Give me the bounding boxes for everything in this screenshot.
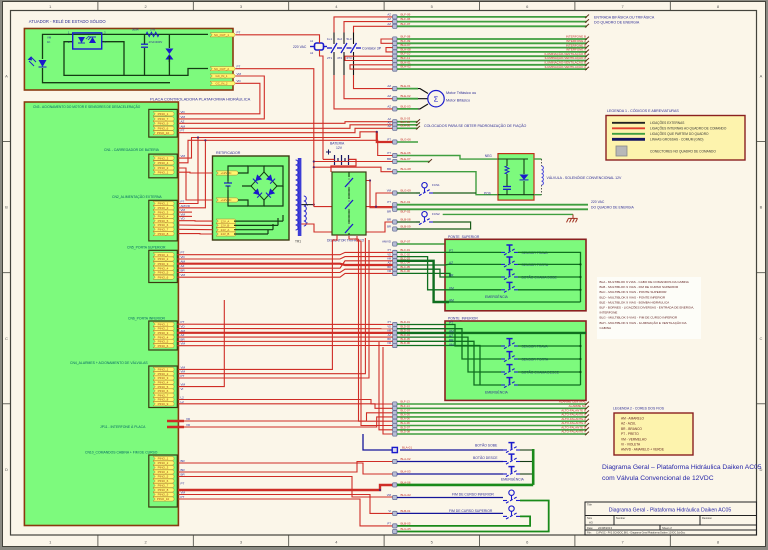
svg-text:VI: VI (181, 387, 184, 391)
svg-text:PT: PT (388, 320, 392, 324)
svg-text:PINO_5: PINO_5 (158, 271, 169, 275)
wire disjuntor bottom poles (349, 236, 359, 239)
svg-text:BR: BR (387, 218, 391, 222)
svg-text:AZ: AZ (387, 84, 391, 88)
svg-text:BLF-09: BLF-09 (401, 12, 411, 16)
svg-text:AZ: AZ (449, 261, 453, 265)
wire CN10 VM PT (178, 495, 393, 514)
wire disjuntor to BLF-02 (366, 181, 393, 208)
svg-text:BLD - MULTIBLOK 9 VIAS - PONTE: BLD - MULTIBLOK 9 VIAS - PONTE INFERIOR (600, 295, 666, 299)
svg-text:LEGENDA 1 - CÓDIGOS E ABREVIA: LEGENDA 1 - CÓDIGOS E ABREVIATURAS (607, 108, 679, 113)
svg-text:BLC - MULTIBLOK 9 VIAS - PONTE: BLC - MULTIBLOK 9 VIAS - PONTE SUPERIOR (600, 290, 668, 294)
svg-text:BR: BR (387, 167, 391, 171)
svg-text:CN5_PORTA SUPERIOR: CN5_PORTA SUPERIOR (127, 246, 166, 250)
svg-text:CN3 - ACIONAMENTO DO MOTOR E: CN3 - ACIONAMENTO DO MOTOR E SENSORES DE… (33, 104, 141, 109)
svg-text:5 W: 5 W (150, 28, 155, 32)
svg-text:BLF-06: BLF-06 (401, 17, 411, 21)
wire jumper loops group2 (381, 39, 393, 43)
svg-text:PLACA CONTROLADORA PLATAFORMA: PLACA CONTROLADORA PLATAFORMA HIDRÁULICA (150, 97, 251, 102)
svg-text:B: B (5, 205, 8, 210)
svg-text:C:\PVSC - PV3.SCHDOC.BK1 - Dia: C:\PVSC - PV3.SCHDOC.BK1 - Diagrama Gera… (596, 532, 686, 535)
svg-text:4T2: 4T2 (337, 56, 343, 60)
svg-text:VM: VM (181, 342, 186, 346)
resistor R2 560R (146, 32, 159, 36)
wire valve internal (498, 159, 534, 195)
pin SC_OUT_2 (210, 67, 235, 71)
svg-text:COLOCADOS PARA SE OBTER PADRON: COLOCADOS PARA SE OBTER PADRONIZAÇÃO DE … (424, 123, 527, 128)
wire atuador internal (43, 34, 209, 82)
wire SC_OUT_2 down to transformer (236, 69, 314, 207)
terminal BLF-01 (393, 203, 397, 207)
svg-text:PINO_3: PINO_3 (158, 466, 169, 470)
svg-text:AZ: AZ (387, 12, 391, 16)
switch FCS1 (416, 183, 433, 196)
terminals BLD ponte inferior (393, 322, 397, 326)
terminals BLE motor (393, 87, 397, 91)
terminal BLE-07 (393, 159, 397, 163)
svg-text:AZ: AZ (387, 17, 391, 21)
svg-text:EMERGÊNCIA: EMERGÊNCIA (485, 294, 509, 299)
svg-text:BLE-01: BLE-01 (401, 84, 411, 88)
svg-text:AZ: AZ (181, 119, 185, 123)
wire verticals to bottom terminals (359, 239, 393, 421)
wire BLE-07 feed (314, 161, 393, 163)
terminal BLA-02 (393, 459, 397, 463)
wire BLA-01 feed (363, 434, 393, 450)
svg-text:PINO_7: PINO_7 (158, 484, 169, 488)
svg-text:BLE-03: BLE-03 (401, 104, 411, 108)
block DISJUNTOR TRIFASICO (332, 172, 366, 235)
svg-text:AZ: AZ (449, 334, 453, 338)
svg-text:BLH-06: BLH-06 (401, 123, 411, 127)
wire SC_OUT_1 to coil (236, 35, 320, 43)
diode D3 valve (520, 175, 529, 180)
svg-text:EMERGÊNCIA: EMERGÊNCIA (485, 390, 509, 395)
svg-text:BOTÃO DESCE: BOTÃO DESCE (473, 455, 498, 460)
pin GC_IN_2 (210, 81, 235, 85)
svg-text:VM: VM (181, 154, 186, 158)
connector CN3 (149, 109, 178, 137)
svg-text:CN6_PORTA INFERIOR: CN6_PORTA INFERIOR (128, 317, 166, 321)
wire CN6 bundle (177, 323, 393, 325)
wire GC_IN_1 to CN3 (178, 76, 264, 119)
terminals BLF-09 06 07 entrada energia (393, 15, 397, 19)
svg-text:AM: AM (181, 124, 186, 128)
svg-text:PINO_3: PINO_3 (158, 262, 169, 266)
wire CN2 pins 3-4 stubs (178, 211, 192, 213)
svg-text:PT: PT (387, 138, 391, 142)
svg-text:TR1: TR1 (295, 240, 301, 244)
svg-text:BLF - BORNES - LIGAÇÕES DIVERS: BLF - BORNES - LIGAÇÕES DIVERSAS - ENTRA… (600, 305, 695, 310)
svg-text:BLF-07: BLF-07 (401, 240, 411, 244)
svg-text:A2: A2 (310, 51, 314, 55)
optocoupler U2 (73, 33, 102, 49)
svg-text:SC_OUT_1: SC_OUT_1 (214, 33, 229, 37)
wire ponte superior inputs (397, 251, 501, 253)
svg-text:A: A (760, 74, 763, 79)
switch emergencia sup (501, 282, 518, 292)
svg-text:VM: VM (449, 286, 454, 290)
svg-text:2T1: 2T1 (327, 56, 333, 60)
svg-text:ILUMINAÇÃO-VENTILAÇÃO A: ILUMINAÇÃO-VENTILAÇÃO A (545, 55, 586, 60)
terminals BLF BLH interfone iluminacao (393, 37, 397, 41)
svg-text:BLD-08: BLD-08 (401, 430, 411, 434)
svg-text:560R: 560R (132, 28, 139, 32)
svg-text:A: A (5, 74, 8, 79)
terminal BLG-05 (393, 529, 397, 533)
svg-text:BR: BR (449, 274, 454, 278)
svg-text:FIM DE CURSO SUPERIOR: FIM DE CURSO SUPERIOR (449, 509, 493, 513)
svg-text:PONTE_SUPERIOR: PONTE_SUPERIOR (448, 235, 480, 239)
svg-text:RETIFICADOR: RETIFICADOR (216, 151, 241, 155)
svg-text:PINO_10: PINO_10 (157, 497, 170, 501)
svg-text:Σ: Σ (434, 95, 439, 104)
svg-text:PT: PT (449, 321, 453, 325)
svg-text:PINO_4: PINO_4 (158, 161, 169, 165)
svg-text:PT: PT (387, 200, 391, 204)
wire CN4 pin5 stub (178, 300, 224, 387)
wire coil A2 down to battery (320, 50, 324, 159)
svg-text:BR: BR (387, 225, 391, 229)
terminal BLA-03 (393, 472, 397, 476)
svg-text:PINO_9: PINO_9 (158, 122, 169, 126)
pin 24V_A (216, 228, 236, 232)
wire ground run (443, 213, 573, 215)
svg-text:Title: Title (587, 503, 592, 507)
svg-text:PONTE_INFERIOR: PONTE_INFERIOR (448, 317, 478, 321)
svg-text:PINO_6: PINO_6 (158, 275, 169, 279)
svg-text:CN1 - CARREGADOR DE BATERIA: CN1 - CARREGADOR DE BATERIA (104, 148, 160, 152)
svg-text:A3: A3 (589, 521, 593, 525)
pin 12V_B (216, 223, 236, 227)
svg-text:24V_B: 24V_B (221, 232, 230, 236)
wire CN5 bundle (177, 252, 393, 254)
svg-text:CONECTORES NO QUADRO DE COMAND: CONECTORES NO QUADRO DE COMANDO (650, 150, 716, 154)
svg-text:22/08/2013: 22/08/2013 (598, 526, 612, 530)
pin +12VDC b (216, 198, 238, 202)
svg-text:AZ: AZ (388, 120, 392, 124)
svg-text:VM: VM (181, 115, 186, 119)
triac Q1 (165, 49, 173, 55)
wire 220VAC to quadro (397, 204, 588, 206)
svg-text:EMERGÊNCIA: EMERGÊNCIA (501, 476, 525, 481)
svg-text:LIGAÇÕES INTERNAS AO QUADRO DE: LIGAÇÕES INTERNAS AO QUADRO DE COMANDO (650, 126, 727, 131)
svg-text:File:: File: (587, 532, 592, 535)
wire contactor bottoms to motor terminals (354, 75, 393, 89)
svg-text:BR: BR (387, 210, 391, 214)
svg-text:VM: VM (181, 273, 186, 277)
solenoid spring (534, 158, 542, 160)
terminal FCS1 switch (393, 191, 397, 195)
svg-text:C: C (5, 336, 8, 341)
switch sensor porta sup (501, 257, 518, 267)
svg-text:ALTO-FALANTE A: ALTO-FALANTE A (561, 430, 586, 434)
svg-text:DO QUADRO DE ENERGIA: DO QUADRO DE ENERGIA (594, 21, 640, 25)
svg-text:BR: BR (387, 157, 391, 161)
svg-text:ALARME NA: ALARME NA (569, 404, 586, 408)
wire CN10 PT thick (178, 485, 393, 490)
svg-text:PINO_4: PINO_4 (158, 470, 169, 474)
svg-text:AZ: AZ (387, 94, 391, 98)
svg-text:PT: PT (181, 482, 185, 486)
svg-text:L2: L2 (181, 400, 185, 404)
svg-text:GC_IN_2: GC_IN_2 (215, 82, 227, 86)
terminal BLB-08 FCS2 (393, 220, 397, 224)
svg-text:ENTRADA BIFÁSICA OU TRIFÁSICA: ENTRADA BIFÁSICA OU TRIFÁSICA (594, 16, 655, 20)
svg-text:PT: PT (237, 65, 241, 69)
svg-text:CN4_ALARMES + ACIONAMENTO DE: CN4_ALARMES + ACIONAMENTO DE VÁLVULAS (70, 361, 148, 365)
terminal BLG-08 (393, 170, 397, 174)
capacitor C3 valve (503, 186, 511, 188)
pin GC_IN_1 (210, 74, 235, 78)
terminal BLB-09 (393, 227, 397, 231)
resistor R3 valve (505, 166, 509, 174)
svg-text:BLA-02: BLA-02 (401, 457, 411, 461)
svg-text:+12VDC: +12VDC (220, 198, 231, 202)
svg-text:ILUMINAÇÃO-VENTILAÇÃO B: ILUMINAÇÃO-VENTILAÇÃO B (544, 60, 586, 65)
svg-text:PT: PT (388, 248, 392, 252)
svg-text:PINO_8: PINO_8 (158, 232, 169, 236)
wire CN10 runs (178, 463, 393, 474)
svg-text:BLG-08: BLG-08 (401, 167, 412, 171)
svg-text:LINHAS GROSSAS - COMUM (GND): LINHAS GROSSAS - COMUM (GND) (650, 138, 703, 142)
switch botao chama desce (501, 365, 518, 375)
pin 24V_B (216, 232, 236, 236)
switch sensor trava sup (501, 245, 518, 255)
svg-text:Diagrama Geral – Plataforma Hi: Diagrama Geral – Plataforma Hidráulica D… (602, 464, 762, 471)
svg-text:PINO_1: PINO_1 (158, 170, 169, 174)
svg-text:BLA - MULTIBLOK 9 VIAS - CABO: BLA - MULTIBLOK 9 VIAS - CABO DE COMANDO… (600, 280, 690, 284)
svg-text:BLF-01: BLF-01 (401, 200, 411, 204)
svg-text:BLB-05: BLB-05 (401, 521, 411, 525)
svg-text:PT: PT (387, 521, 391, 525)
motor M1 (428, 91, 444, 107)
wire GC_IN_2 to CN3 (178, 83, 260, 114)
svg-text:BLG-09: BLG-09 (401, 189, 412, 193)
terminal BLB-05 (393, 524, 397, 528)
svg-text:ATUADOR - RELÉ DE ESTADO: ATUADOR - RELÉ DE ESTADO SÓLIDO (29, 19, 107, 24)
wire CN4 pin9 (178, 404, 393, 409)
svg-text:BLF-07: BLF-07 (401, 22, 411, 26)
svg-text:BLB-09: BLB-09 (401, 225, 411, 229)
terminals alarme alto-falante (393, 402, 397, 406)
bloco list text (597, 277, 701, 339)
svg-text:FIM DE CURSO INFERIOR: FIM DE CURSO INFERIOR (452, 493, 494, 497)
svg-text:AZ: AZ (387, 22, 391, 26)
svg-text:PT: PT (387, 151, 391, 155)
svg-text:BLB-01: BLB-01 (401, 509, 411, 513)
svg-text:AM/VD - AMARELO + VERDE: AM/VD - AMARELO + VERDE (621, 448, 664, 452)
title block (585, 502, 757, 535)
svg-text:BLE-07: BLE-07 (401, 157, 411, 161)
svg-text:PT: PT (237, 31, 241, 35)
svg-text:PT: PT (181, 495, 185, 499)
svg-text:VÁLVULA - SOLENÓIDE CONVENCION: VÁLVULA - SOLENÓIDE CONVENCIONAL 12V (547, 175, 623, 180)
wire secondary to BLF-01 (314, 206, 393, 208)
svg-text:CABINA: CABINA (600, 326, 612, 330)
svg-text:12V: 12V (336, 146, 343, 150)
svg-text:PINO_7: PINO_7 (158, 117, 169, 121)
svg-text:BLG-05: BLG-05 (401, 527, 412, 531)
svg-text:BLG - MULTIBLOK 9 VIAS - FIM D: BLG - MULTIBLOK 9 VIAS - FIM DE CURSO IN… (600, 316, 678, 320)
svg-text:BLH - MULTIBLOK 9 VIAS - ILUMI: BLH - MULTIBLOK 9 VIAS - ILUMINAÇÃO E VE… (600, 320, 688, 325)
terminal BLE-06 (393, 153, 397, 157)
svg-text:BLE-06: BLE-06 (401, 151, 411, 155)
wire ponte inferior inputs (397, 325, 501, 347)
svg-text:D: D (5, 467, 8, 472)
svg-text:47uF/400V: 47uF/400V (149, 40, 163, 44)
svg-text:VM: VM (387, 189, 392, 193)
svg-text:PINO_6: PINO_6 (158, 479, 169, 483)
svg-text:PINO_1: PINO_1 (158, 112, 169, 116)
svg-text:BATERIA: BATERIA (330, 142, 345, 146)
svg-text:3L2: 3L2 (337, 37, 342, 41)
block U1 ATUADOR - solid state relay (24, 29, 233, 91)
pin SC_OUT_1 (210, 33, 235, 37)
coil K1 220VAC (315, 43, 324, 50)
svg-text:PINO_2: PINO_2 (158, 257, 169, 261)
breaker poles (348, 172, 350, 235)
svg-text:Sheet of: Sheet of (662, 526, 672, 530)
svg-text:BLG-06: BLG-06 (401, 138, 412, 142)
switch botao chama sobe (501, 270, 518, 280)
switch sensor trava inf (501, 339, 518, 349)
svg-text:1L1: 1L1 (327, 37, 332, 41)
svg-text:PINO_8: PINO_8 (158, 488, 169, 492)
svg-text:BLB - MULTIBLOK 9 VIAS - FIM D: BLB - MULTIBLOK 9 VIAS - FIM DE CURSO SU… (600, 285, 679, 289)
svg-text:BLH-02: BLH-02 (401, 65, 412, 69)
svg-text:AM/VD: AM/VD (382, 240, 391, 244)
pin +12VDC a (216, 171, 238, 175)
svg-text:Motor Bifásico: Motor Bifásico (446, 99, 470, 103)
svg-text:BLA-03: BLA-03 (401, 470, 411, 474)
wire BLE-07 stub (397, 161, 430, 163)
wire CN4 pin8 (178, 400, 393, 405)
switch sensor porta inf (501, 352, 518, 362)
svg-text:VM - VERMELHO: VM - VERMELHO (621, 437, 647, 441)
capacitor C1 47uF 400V (141, 43, 148, 45)
svg-text:AZ: AZ (388, 124, 392, 128)
svg-text:BR: BR (449, 339, 454, 343)
svg-text:VM: VM (387, 493, 392, 497)
svg-text:Size: Size (587, 516, 593, 520)
svg-text:PINO_10: PINO_10 (157, 131, 170, 135)
bridge rectifier D2 (251, 172, 277, 200)
svg-text:Motor Trifásico ou: Motor Trifásico ou (446, 91, 476, 95)
svg-text:NEG: NEG (485, 154, 492, 158)
svg-text:INTERFONE: INTERFONE (600, 311, 618, 315)
svg-text:PT: PT (449, 249, 453, 253)
svg-text:BLE - MULTIBLOK 9 VIAS - BOMBA: BLE - MULTIBLOK 9 VIAS - BOMBA HIDRÁULIC… (600, 300, 671, 304)
svg-text:Number: Number (616, 516, 625, 520)
svg-text:CN10_COMANDOS CABINA + FIM DE: CN10_COMANDOS CABINA + FIM DE CURSO (85, 451, 158, 455)
svg-text:PINO_9: PINO_9 (158, 493, 169, 497)
transformer TR1 (298, 158, 302, 236)
svg-text:AZ: AZ (387, 104, 391, 108)
svg-text:PINO_6: PINO_6 (158, 344, 169, 348)
wire BLG-08 feed (314, 167, 393, 172)
terminals BLC ponte superior (393, 250, 397, 254)
svg-text:220 VAC: 220 VAC (293, 45, 307, 49)
terminal BLA-01 (392, 447, 397, 452)
svg-text:PINO_3: PINO_3 (158, 156, 169, 160)
svg-text:com Válvula Convencional de 12: com Válvula Convencional de 12VDC (602, 475, 714, 482)
terminal BLG-06 thick (393, 140, 397, 144)
block valvula solenoide (498, 154, 534, 201)
svg-text:VM: VM (449, 343, 454, 347)
wire contactor tops to terminals (334, 17, 393, 33)
svg-text:Revision: Revision (702, 516, 713, 520)
ground symbol (567, 214, 578, 222)
wire JP11 to terminals (184, 413, 393, 421)
wire CN2 to rectifier taps (178, 220, 213, 222)
wire CN4 pin3 riser (178, 240, 369, 378)
switch emergencia cabina (397, 473, 503, 475)
svg-text:CN2_ALIMENTAÇÃO EXTERNA: CN2_ALIMENTAÇÃO EXTERNA (112, 194, 162, 199)
terminals padronizacao de fiacao (393, 120, 397, 124)
wire CN1 to rectifier +12VDC (178, 171, 213, 174)
wire common thick green (397, 484, 533, 487)
svg-text:DO QUADRO DE ENERGIA: DO QUADRO DE ENERGIA (591, 206, 635, 210)
wire to valve bottom (397, 172, 498, 195)
svg-text:FCS2: FCS2 (432, 212, 440, 216)
wire battery leads (323, 158, 335, 160)
wire BLG-09 feed (376, 193, 393, 207)
wire CN4 pin1 to disjuntor (178, 235, 337, 369)
block RETIFICADOR (213, 156, 290, 240)
terminal BLB-01 (393, 511, 397, 515)
svg-text:Date:: Date: (587, 526, 593, 530)
svg-text:5L3: 5L3 (347, 37, 352, 41)
svg-text:LIGAÇÕES QUE PARTEM DO QUADRO: LIGAÇÕES QUE PARTEM DO QUADRO (650, 131, 709, 136)
block PLACA CONTROLADORA (24, 102, 178, 526)
wire to valve top (397, 156, 498, 160)
svg-text:FCS1: FCS1 (432, 183, 440, 187)
wire motor leads (397, 89, 428, 94)
svg-text:POS: POS (484, 192, 491, 196)
svg-text:1K: 1K (47, 40, 51, 44)
LED D1 (39, 60, 47, 67)
wire rectifier internal (228, 166, 283, 234)
wire CN1 pin4 long run (178, 140, 393, 163)
svg-text:BLA-01: BLA-01 (402, 446, 412, 450)
svg-text:ILUMINAÇÃO-VENTILAÇÃO B: ILUMINAÇÃO-VENTILAÇÃO B (544, 51, 586, 56)
svg-text:AM - AMARELO: AM - AMARELO (621, 417, 645, 421)
svg-text:BLG-02: BLG-02 (401, 493, 412, 497)
wire CN2 pin1 riser (178, 138, 198, 204)
svg-text:PINO_2: PINO_2 (158, 461, 169, 465)
wire CN3 bundle to terminals (178, 122, 393, 124)
svg-text:C: C (760, 336, 763, 341)
svg-text:GC_IN_1: GC_IN_1 (215, 74, 227, 78)
svg-text:Diagrama Geral - Plataforma Hi: Diagrama Geral - Plataforma Hidráulica D… (609, 508, 732, 514)
svg-text:LIGAÇÕES EXTERNAS: LIGAÇÕES EXTERNAS (650, 120, 684, 125)
wire transformer secondary pin2 (301, 222, 392, 232)
svg-text:PT: PT (181, 129, 185, 133)
svg-text:SC_OUT_2: SC_OUT_2 (214, 67, 229, 71)
svg-text:BR - BRANCO: BR - BRANCO (621, 427, 642, 431)
svg-text:PINO_1: PINO_1 (158, 457, 169, 461)
wire CN1 pin3 long run (178, 132, 377, 158)
terminal BLF-07 amvd (393, 242, 397, 246)
svg-text:BLF-14: BLF-14 (401, 404, 411, 408)
svg-text:VM: VM (237, 72, 242, 76)
svg-text:BLE-02: BLE-02 (401, 94, 411, 98)
switch emergencia inf (501, 378, 518, 388)
svg-text:LEGENDA 2 - CORES DOS FIOS: LEGENDA 2 - CORES DOS FIOS (613, 407, 665, 411)
svg-text:PT: PT (181, 374, 185, 378)
svg-text:AM: AM (449, 329, 454, 333)
